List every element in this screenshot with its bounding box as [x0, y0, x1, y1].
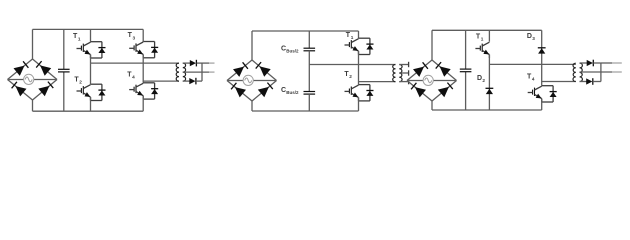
svg-text:C: C — [281, 46, 286, 53]
svg-text:1: 1 — [78, 36, 81, 41]
svg-text:1: 1 — [481, 37, 484, 42]
svg-text:2: 2 — [79, 79, 82, 84]
svg-text:Bus/2: Bus/2 — [286, 90, 299, 95]
svg-text:Bus/2: Bus/2 — [286, 48, 299, 53]
svg-text:2: 2 — [482, 78, 485, 83]
svg-text:1: 1 — [351, 35, 354, 40]
svg-text:4: 4 — [532, 76, 535, 81]
svg-text:D: D — [527, 33, 532, 40]
svg-text:2: 2 — [349, 74, 352, 79]
svg-text:C: C — [281, 87, 286, 94]
svg-text:3: 3 — [133, 35, 136, 40]
svg-text:D: D — [477, 75, 482, 82]
svg-text:3: 3 — [532, 36, 535, 41]
svg-text:4: 4 — [132, 74, 135, 79]
